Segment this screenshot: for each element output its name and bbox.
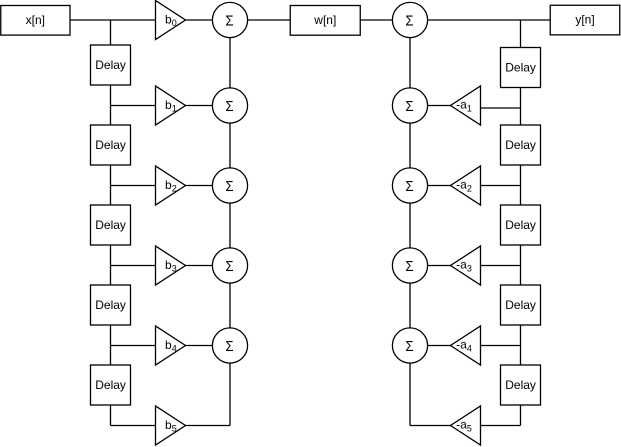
wire x[n] to w[n] top row [70, 19, 290, 21]
gain b2 triangle [156, 166, 186, 205]
svg-text:Σ: Σ [225, 178, 233, 195]
svg-text:Delay: Delay [505, 378, 536, 392]
adder left sum1 [212, 2, 247, 37]
svg-text:Delay: Delay [95, 218, 126, 232]
svg-text:Delay: Delay [505, 138, 536, 152]
svg-text:x[n]: x[n] [26, 13, 45, 27]
delay block right D8 [501, 205, 541, 245]
adder right sum10 [392, 328, 427, 363]
gain -a2 triangle [451, 166, 481, 205]
gain b1 triangle [156, 86, 186, 125]
delay block left D2 [91, 125, 131, 165]
adder left sum3 [212, 168, 247, 203]
delay block left D4 [91, 285, 131, 325]
svg-text:Σ: Σ [225, 13, 233, 30]
node w[n] box [290, 6, 360, 36]
svg-text:Delay: Delay [95, 378, 126, 392]
delay block right D10 [501, 365, 541, 405]
adder right sum7 [392, 88, 427, 123]
svg-text:Σ: Σ [405, 13, 413, 30]
gain -a3 triangle [451, 246, 481, 285]
wire tap b2 row [111, 185, 231, 187]
wire -a5 bottom row [410, 425, 521, 427]
delay block left D5 [91, 365, 131, 405]
gain -a5 triangle [451, 406, 481, 445]
adder left sum5 [212, 328, 247, 363]
adder left sum2 [212, 88, 247, 123]
svg-text:Σ: Σ [405, 98, 413, 115]
svg-text:Σ: Σ [405, 178, 413, 195]
delay block right D6 [501, 48, 541, 88]
gain b0 triangle [156, 1, 186, 40]
delay block right D7 [501, 125, 541, 165]
adder right sum8 [392, 168, 427, 203]
svg-text:Delay: Delay [95, 58, 126, 72]
gain b5 triangle [156, 406, 186, 445]
gain b3 triangle [156, 246, 186, 285]
wire b5 bottom row [111, 425, 231, 427]
delay block right D9 [501, 285, 541, 325]
wire right adder chain vertical [409, 20, 411, 426]
wire right delay chain vertical [520, 20, 522, 426]
gain -a4 triangle [451, 326, 481, 365]
svg-text:Σ: Σ [405, 338, 413, 355]
wire -a1 output to adder [410, 105, 460, 107]
wire -a2 row [410, 185, 521, 187]
delay block left D3 [91, 205, 131, 245]
wire tap b1 row [111, 105, 231, 107]
wire tap b3 row [111, 265, 231, 267]
svg-text:Σ: Σ [225, 258, 233, 275]
svg-text:w[n]: w[n] [313, 13, 336, 27]
wire left adder chain vertical [229, 20, 231, 426]
svg-text:Delay: Delay [95, 298, 126, 312]
svg-text:Σ: Σ [225, 98, 233, 115]
node y[n] output box [550, 5, 620, 35]
svg-text:Delay: Delay [505, 218, 536, 232]
wire tap b4 row [111, 345, 231, 347]
gain b4 triangle [156, 326, 186, 365]
svg-text:Σ: Σ [405, 258, 413, 275]
adder right sum6 [392, 2, 427, 37]
wire -a3 row [410, 265, 521, 267]
adder left sum4 [212, 248, 247, 283]
svg-text:Delay: Delay [95, 138, 126, 152]
adder right sum9 [392, 248, 427, 283]
svg-text:Σ: Σ [225, 338, 233, 355]
wire w[n] to y[n] top row [361, 19, 551, 21]
delay block left D1 [91, 45, 131, 85]
node x[n] input box [1, 6, 70, 36]
wire left delay chain vertical [110, 20, 112, 426]
gain -a1 triangle [451, 86, 481, 125]
svg-text:Delay: Delay [505, 61, 536, 75]
svg-text:Delay: Delay [505, 298, 536, 312]
wire -a4 row [410, 345, 521, 347]
wire -a1 input from delay chain [475, 107, 521, 109]
svg-text:y[n]: y[n] [575, 13, 594, 27]
